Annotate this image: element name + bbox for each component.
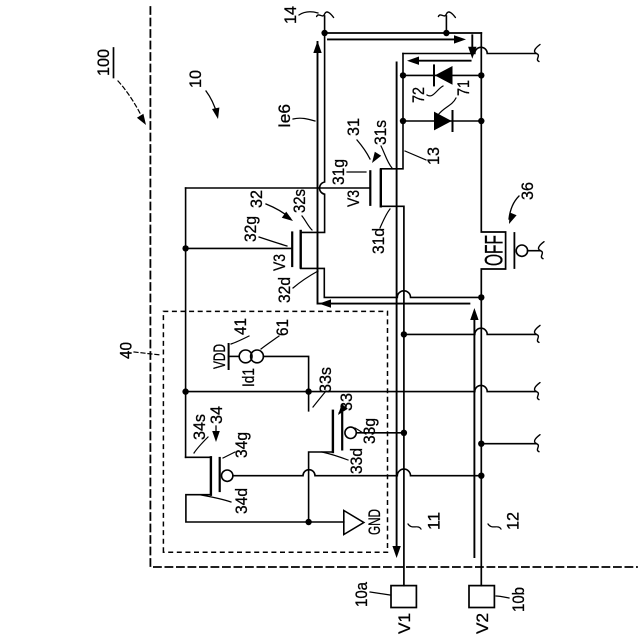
svg-text:Id1: Id1 [239,368,258,387]
transistor 32 (V3) gate bar [291,233,293,267]
transistor 34 drain wire to ground net [186,495,344,522]
svg-text:Ie6: Ie6 [275,104,294,128]
svg-text:33d: 33d [347,448,366,474]
junction dot diode72/bottom rail [478,72,484,78]
svg-text:V1: V1 [395,613,414,634]
leader 71 wavy [438,98,456,115]
svg-text:32d: 32d [275,277,294,303]
junction dot W2/rail [182,388,188,394]
junction dot GND wire / 33 drain [305,519,311,525]
ground symbol GND (open triangle) [344,511,364,535]
stub to terminal 14 with break mark [324,16,326,33]
transistor 33 gate circle (p-type) [345,427,356,438]
junction dot stub/line 11 [401,331,407,337]
leader 33s [313,391,326,407]
leader 41 [231,336,249,344]
wire 13: diode block to transistor 31 source [381,54,403,169]
leader Ie6 [293,118,315,121]
leader 31g [347,171,366,173]
svg-text:72: 72 [409,87,428,103]
svg-text:32: 32 [247,190,266,208]
leader 13 [405,151,426,160]
switch 36 wire to external break [528,250,540,252]
svg-text:34d: 34d [232,488,251,514]
annotation arrow along line 11 toward V1 (current out) [396,62,398,553]
leader 34g [223,452,235,458]
diode 71 (pointing down): triangle [434,112,452,131]
transistor 33 channel bar [332,411,334,452]
stub wire from line 12 rail to external break [481,443,536,445]
junction dot diode71/bottom rail [478,118,484,124]
transistor 33 gate wire to line 11 [356,432,404,434]
annotation arrow along line 12 from V2 (current in) [473,313,475,557]
junction dot bus/stub 14 [321,30,327,36]
leader 31s [381,146,392,168]
switch 36 actuator circle [516,245,527,256]
svg-text:31: 31 [344,118,363,136]
leader 32g [259,237,287,246]
leader 61 [261,336,279,349]
transistor 34 source wire from rail [186,456,211,458]
svg-text:41: 41 [231,318,250,335]
leader 11 wavy [408,524,421,529]
diode 72 (pointing up): cathode bar [433,65,435,85]
svg-text:32s: 32s [290,189,309,213]
leader arrow from label 10 [206,91,217,114]
svg-text:10b: 10b [509,587,528,612]
dashed boundary of device 100 (top and left edges) [150,7,637,567]
svg-text:100: 100 [94,49,113,76]
junction dot 34-gate rail / line 12 rail [478,473,484,479]
annotation arrow up into wire 13 [412,60,471,62]
svg-text:31g: 31g [329,159,348,185]
transistor 33 drain wire to ground net [309,452,333,522]
svg-text:V3: V3 [344,190,363,207]
bottom rail: bus corner to OFF switch to terminal V2 (line 12) [481,33,505,586]
svg-text:34: 34 [207,406,226,424]
leader from label 14 to stub [299,12,318,15]
gate wire of transistor 32 [186,247,292,249]
junction dot rail/diode72 wire [400,72,406,78]
leader 34s [194,437,208,453]
junction dot gate33/line 11 [401,430,407,436]
junction dot gate-32 / rail [182,245,188,251]
wire W1: rail corner to gate of transistor 31 [186,187,370,189]
svg-text:40: 40 [117,342,136,359]
dashed leader arrow from label 100 to boundary [118,81,143,119]
switch 36 contact bar [513,233,515,268]
junction dot W2/current-source wire [305,388,311,394]
wire VDD bar to current source [229,355,240,357]
leader 33d [322,452,348,460]
block 40 dashed boundary box [163,311,387,552]
diode 71 cathode bar [452,111,454,131]
svg-text:VDD: VDD [210,344,229,369]
second stub on bus with break mark [445,16,447,33]
svg-text:V2: V2 [473,613,492,634]
terminal box V1 (10a) [391,586,416,608]
leader 12 wavy [488,524,501,529]
svg-text:10a: 10a [352,582,371,607]
VDD bar [228,344,230,369]
diode 72 triangle [435,66,453,85]
svg-text:32g: 32g [241,216,260,242]
transistor 31 (V3) gate bar [369,171,371,205]
leader 10a [370,592,390,595]
terminal box V2 (10b) [469,586,494,608]
leader 33g [355,428,363,433]
current arrow Ie6 (up line 12 then left... annotation) [318,42,470,304]
wire of diode 71 between rails [403,120,481,122]
svg-text:31d: 31d [369,228,388,254]
svg-text:GND: GND [365,509,384,535]
wire current source to transistor 33 source [263,356,308,410]
leader 32s [302,216,312,230]
transistor 32 channel bar [300,231,302,268]
transistor 31 drain wire and line 11 to terminal V1 [381,206,404,585]
junction dot rail/diode71 wire [400,118,406,124]
transistor 34 channel bar [210,457,212,494]
leader 31d [380,209,390,228]
svg-text:V3: V3 [270,254,289,271]
svg-text:31s: 31s [371,120,390,145]
transistor 34 gate circle (p-type) [222,470,233,481]
transistor 34 gate wire = rail to OFF-switch line (humps over GND wire and lines 11) [233,469,481,476]
left rail of block 40 (source rail) [185,188,187,457]
wire from diode top rail to external break (crosses line12 with hump) [403,47,536,53]
node 14: supply bus vertical wire at right [325,32,482,34]
junction dot 32-drain rail / line 12 [478,294,484,300]
svg-text:14: 14 [281,6,300,24]
transistor 32 drain wire to node 12 rail, hump over lines 11 [301,268,482,297]
transistor 31 channel bar [380,170,382,207]
svg-text:OFF: OFF [481,235,509,266]
wire W2: rail to external break (crosses line12 with hump) [186,385,536,391]
svg-text:34g: 34g [232,432,251,458]
svg-text:36: 36 [518,182,537,200]
leader 32d [293,271,318,288]
wire from bus to transistor 32 source, hump over W1 [301,33,325,232]
junction dot bus/second stub [443,30,449,36]
annotation arrow along bus pointing down [328,38,461,40]
svg-text:33s: 33s [316,367,335,393]
svg-text:11: 11 [425,512,444,530]
leader 34d [201,495,231,502]
current source 61 (Id1): circle 1 [239,350,252,363]
svg-text:61: 61 [273,319,292,336]
svg-text:13: 13 [424,147,443,165]
leader 72 wavy [427,86,443,96]
svg-text:71: 71 [454,80,473,96]
svg-text:10: 10 [186,70,205,88]
current source 61: circle 2 [251,350,264,363]
junction dot stub/line 12 rail [478,441,484,447]
svg-text:12: 12 [504,512,523,530]
leader 10b [496,596,509,598]
annotation arrow turning left on bottom rail [471,35,473,54]
wire of diode 72 between rails [403,74,481,76]
stub wire from line 11 to external break (crosses line12 with hump) [404,328,536,334]
svg-text:33g: 33g [360,418,379,444]
transistor 33 gate bar [341,413,343,449]
transistor 34 gate bar [219,458,221,491]
dashed leader from 40 to block [134,352,161,355]
